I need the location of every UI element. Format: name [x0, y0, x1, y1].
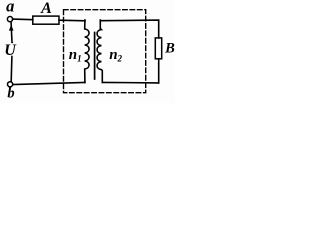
terminal b [8, 82, 13, 87]
wire secondary top to load B [100, 20, 158, 38]
transformer core [94, 33, 96, 80]
ammeter A box [33, 16, 59, 24]
wire B down to bottom [158, 59, 160, 83]
dashed box (transformer enclosure) [64, 10, 146, 93]
voltage arrow head [9, 25, 14, 31]
primary winding n1 [85, 20, 89, 83]
source line upper segment [10, 23, 13, 41]
svg-text:U: U [4, 42, 17, 59]
bottom wire right circuit [102, 81, 158, 84]
terminal a [7, 17, 12, 22]
svg-text:B: B [164, 40, 175, 56]
load B box [155, 38, 161, 59]
svg-text:b: b [7, 86, 14, 102]
source line lower segment [10, 57, 13, 82]
svg-text:A: A [40, 0, 52, 17]
dot of U [11, 41, 13, 43]
wire a to ammeter A [13, 18, 33, 21]
bottom wire left circuit [13, 83, 85, 85]
secondary winding n2 [97, 20, 102, 83]
svg-text:a: a [6, 0, 14, 15]
wire A to primary winding [59, 19, 85, 22]
